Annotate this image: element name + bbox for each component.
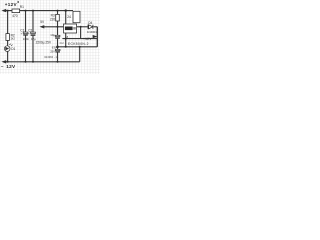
resistor R1 — [12, 9, 20, 13]
svg-text:63V: 63V — [52, 46, 57, 50]
svg-text:R1: R1 — [20, 5, 24, 9]
node junction dots bottom rail — [7, 61, 59, 63]
wire IC1 bottom pin — [65, 33, 67, 47]
svg-text:2200µ 25V: 2200µ 25V — [36, 41, 52, 45]
wire mid arrow to IC1 — [44, 26, 64, 28]
svg-text:470: 470 — [12, 14, 18, 18]
svg-text:+12V: +12V — [83, 37, 92, 41]
svg-text:1N4001: 1N4001 — [87, 30, 97, 34]
node junction dots top rail — [7, 9, 67, 11]
svg-text:100n: 100n — [23, 37, 30, 41]
svg-text:C2: C2 — [28, 28, 32, 32]
svg-text:24: 24 — [67, 15, 71, 19]
wire R3 branch — [57, 11, 59, 62]
wire bottom rail — [5, 61, 80, 63]
svg-text:220: 220 — [50, 17, 56, 21]
wire top rail — [5, 10, 73, 12]
wire cap C2 line — [32, 11, 34, 62]
svg-text:25V: 25V — [50, 50, 55, 54]
svg-text:ECK500N-2: ECK500N-2 — [68, 42, 89, 46]
capacitor C3 — [55, 35, 60, 38]
capacitor C4 — [55, 49, 60, 52]
resistor R3 (vertical, mid) — [56, 14, 60, 21]
node junction dots middle — [56, 26, 81, 48]
wire lower right rail — [58, 46, 98, 48]
wire ground riser — [79, 47, 81, 62]
capacitor C2 — [31, 32, 36, 36]
wire cap C1 line — [25, 11, 27, 62]
svg-text:2k2: 2k2 — [11, 37, 16, 41]
label top-right tick of +12V — [17, 1, 19, 3]
op-amp U1 regulator box — [64, 24, 77, 33]
grid background — [0, 0, 100, 74]
svg-text:IC2: IC2 — [60, 41, 65, 45]
U1 type label (dark) — [65, 27, 73, 31]
wire diode to corner — [94, 26, 98, 28]
svg-text:–: – — [1, 64, 4, 69]
LED D1 — [4, 44, 12, 52]
terminal arrow +12V input — [1, 9, 6, 12]
svg-text:024384 - 11: 024384 - 11 — [44, 55, 59, 59]
relay K1 box — [73, 11, 80, 22]
wire left vertical below LED — [7, 51, 9, 62]
wire regulator tap vertical — [80, 27, 82, 39]
diode D2 — [88, 25, 93, 29]
svg-text:+12V: +12V — [5, 2, 18, 7]
resistor R2 (vertical, LED branch) — [6, 34, 9, 41]
svg-text:D1: D1 — [11, 47, 15, 51]
terminal arrow +12V output — [93, 35, 98, 38]
svg-text:C1: C1 — [20, 28, 24, 32]
capacitor C1 — [23, 32, 28, 36]
terminal arrow mid (5V sense) — [40, 25, 45, 28]
svg-text:D4: D4 — [88, 21, 92, 25]
wire left vertical below R2 — [7, 40, 9, 46]
svg-text:10µ: 10µ — [50, 33, 55, 37]
wire right vertical — [96, 27, 98, 47]
terminal arrow -12V input — [1, 60, 6, 63]
svg-text:12V: 12V — [6, 64, 16, 69]
wire IC1 top pin — [65, 11, 67, 24]
wire left vertical drop — [7, 11, 9, 34]
wire IC1 output to diode — [77, 26, 89, 28]
wire mid horizontal net — [62, 38, 97, 40]
